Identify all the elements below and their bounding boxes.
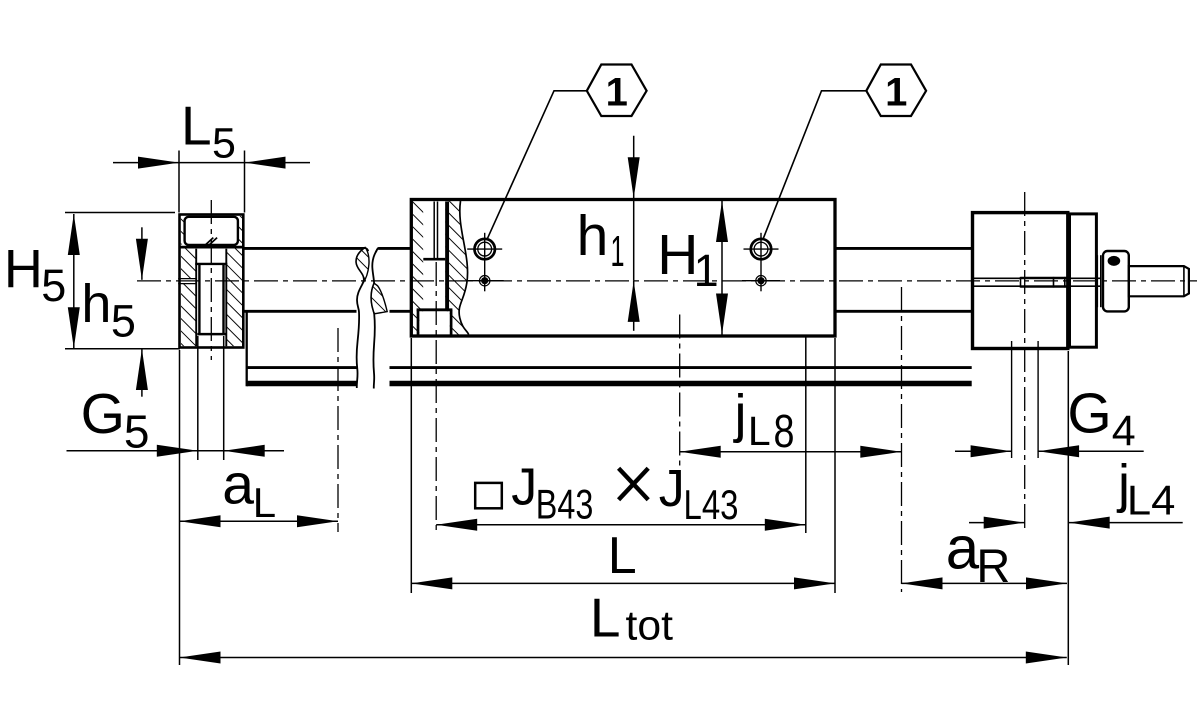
svg-text:B43: B43	[536, 481, 594, 528]
svg-text:L: L	[608, 527, 637, 585]
svg-text:h: h	[81, 274, 111, 334]
svg-text:H: H	[657, 223, 698, 287]
svg-text:G: G	[81, 382, 125, 446]
svg-text:1: 1	[611, 227, 625, 276]
svg-text:L4: L4	[1127, 477, 1176, 524]
svg-text:J: J	[511, 459, 537, 517]
svg-text:j: j	[733, 384, 747, 444]
svg-text:5: 5	[41, 260, 66, 311]
svg-text:L: L	[748, 408, 771, 454]
svg-text:L: L	[590, 587, 621, 649]
svg-text:J: J	[659, 460, 685, 518]
svg-text:H: H	[4, 239, 43, 299]
svg-text:5: 5	[124, 406, 150, 458]
svg-text:L: L	[181, 95, 212, 157]
svg-text:5: 5	[111, 295, 136, 346]
svg-text:4: 4	[1112, 407, 1136, 455]
svg-text:1: 1	[606, 70, 628, 114]
svg-text:L: L	[253, 479, 276, 526]
svg-text:a: a	[946, 515, 980, 582]
svg-text:R: R	[976, 539, 1010, 592]
svg-text:h: h	[577, 204, 609, 268]
svg-text:tot: tot	[626, 601, 674, 648]
svg-text:G: G	[1067, 381, 1111, 445]
svg-text:a: a	[222, 453, 254, 517]
svg-text:1: 1	[885, 70, 907, 114]
svg-text:8: 8	[774, 405, 795, 457]
svg-text:L43: L43	[684, 481, 739, 528]
svg-text:5: 5	[212, 119, 236, 167]
svg-text:1: 1	[694, 245, 719, 296]
